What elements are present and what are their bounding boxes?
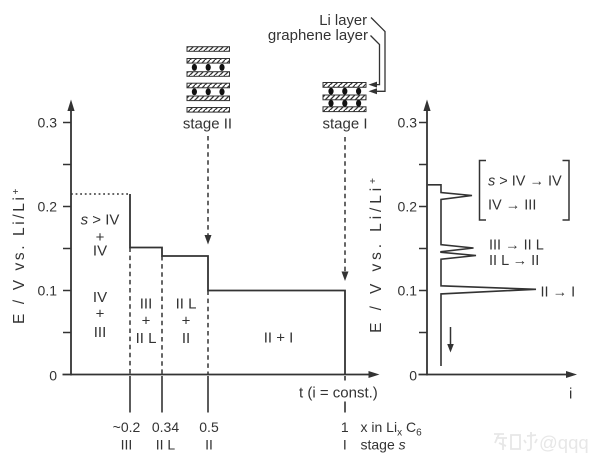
svg-text:0.2: 0.2 <box>38 199 58 215</box>
right y-axis ticks <box>419 123 427 333</box>
svg-text:IV: IV <box>93 289 107 306</box>
svg-text:stage I: stage I <box>322 116 367 133</box>
small downward arrow on baseline <box>450 327 452 345</box>
svg-text:s > IV: s > IV <box>81 212 120 229</box>
svg-text:t (i = const.): t (i = const.) <box>299 385 378 402</box>
phase region label III + II L <box>136 296 157 348</box>
x composition labels row <box>113 419 349 435</box>
svg-text:II + I: II + I <box>264 330 294 347</box>
svg-text:II: II <box>182 330 190 347</box>
left x-axis <box>63 374 370 376</box>
svg-text:III: III <box>94 324 107 341</box>
svg-text:1: 1 <box>341 419 349 435</box>
dashed phase-boundary line x=208 <box>207 291 209 375</box>
svg-text:III: III <box>121 437 133 453</box>
dashed phase-boundary line x=162 <box>161 256 163 375</box>
svg-text:E / V vs. Li/Li+: E / V vs. Li/Li+ <box>368 174 385 333</box>
svg-text:0.1: 0.1 <box>38 283 58 299</box>
phase region label II L + II <box>176 296 197 348</box>
Li layer pointer line <box>371 18 385 92</box>
svg-text:III: III <box>140 296 153 313</box>
stage I stack graphene bars <box>323 83 366 112</box>
below-axis tick lines <box>130 376 345 413</box>
svg-text:E / V vs. Li/Li+: E / V vs. Li/Li+ <box>11 186 28 324</box>
svg-text:+: + <box>182 313 191 330</box>
graphene layer pointer line <box>371 36 380 85</box>
watermark zhihu @qqq <box>494 432 537 450</box>
left y-axis tick labels <box>38 115 58 384</box>
phase region label s>IV + IV <box>81 212 120 260</box>
svg-text:0.5: 0.5 <box>199 419 219 435</box>
svg-text:I: I <box>343 437 347 453</box>
svg-text:0.2: 0.2 <box>398 199 418 215</box>
stage II Li dots row 1 <box>192 64 225 71</box>
svg-text:II L → II: II L → II <box>489 253 539 269</box>
dashed arrow from stage II to curve <box>207 136 209 236</box>
svg-text:II L: II L <box>176 296 197 313</box>
stage labels row <box>121 437 347 453</box>
svg-text:0: 0 <box>409 368 417 384</box>
svg-text:stage II: stage II <box>183 116 232 133</box>
svg-text:IV: IV <box>93 243 107 260</box>
stage II Li dots row 2 <box>192 88 225 95</box>
svg-text:0.3: 0.3 <box>38 115 58 131</box>
svg-text:~0.2: ~0.2 <box>113 419 141 435</box>
svg-text:s > IV → IV: s > IV → IV <box>488 174 562 190</box>
svg-text:0.1: 0.1 <box>398 283 418 299</box>
svg-text:II → I: II → I <box>541 285 576 301</box>
dotted initial plateau at 0.215 V <box>71 193 130 195</box>
dashed phase-boundary line x=130 <box>129 248 131 375</box>
svg-text:0: 0 <box>49 368 57 384</box>
svg-text:+: + <box>142 313 151 330</box>
left y-axis ticks <box>63 123 71 333</box>
svg-text:II L: II L <box>136 330 157 347</box>
differential current curve with peaks <box>428 185 536 366</box>
stage I Li dots row 1 <box>328 88 361 95</box>
stage II stack graphene bars <box>187 47 230 112</box>
svg-text:III → II L: III → II L <box>489 238 544 254</box>
left y-axis <box>70 110 72 376</box>
dashed arrow from stage I to curve <box>344 137 346 272</box>
stage I Li dots row 2 <box>328 100 361 107</box>
svg-text:II L: II L <box>156 437 176 453</box>
svg-text:i: i <box>569 386 572 403</box>
svg-text:+: + <box>96 306 105 323</box>
right y-axis tick labels <box>398 115 418 384</box>
svg-text:stage s: stage s <box>361 437 406 453</box>
svg-text:IV → III: IV → III <box>488 198 536 214</box>
main potential step curve <box>130 194 345 375</box>
svg-text:II: II <box>205 437 213 453</box>
right x-axis <box>419 374 568 376</box>
bracket for s>IV transitions <box>480 161 487 221</box>
svg-text:0.3: 0.3 <box>398 115 418 131</box>
phase region label IV + III <box>93 289 107 341</box>
right y-axis <box>426 110 428 376</box>
svg-text:0.34: 0.34 <box>152 419 179 435</box>
svg-text:@qqq: @qqq <box>539 432 589 453</box>
svg-text:graphene layer: graphene layer <box>268 27 368 44</box>
